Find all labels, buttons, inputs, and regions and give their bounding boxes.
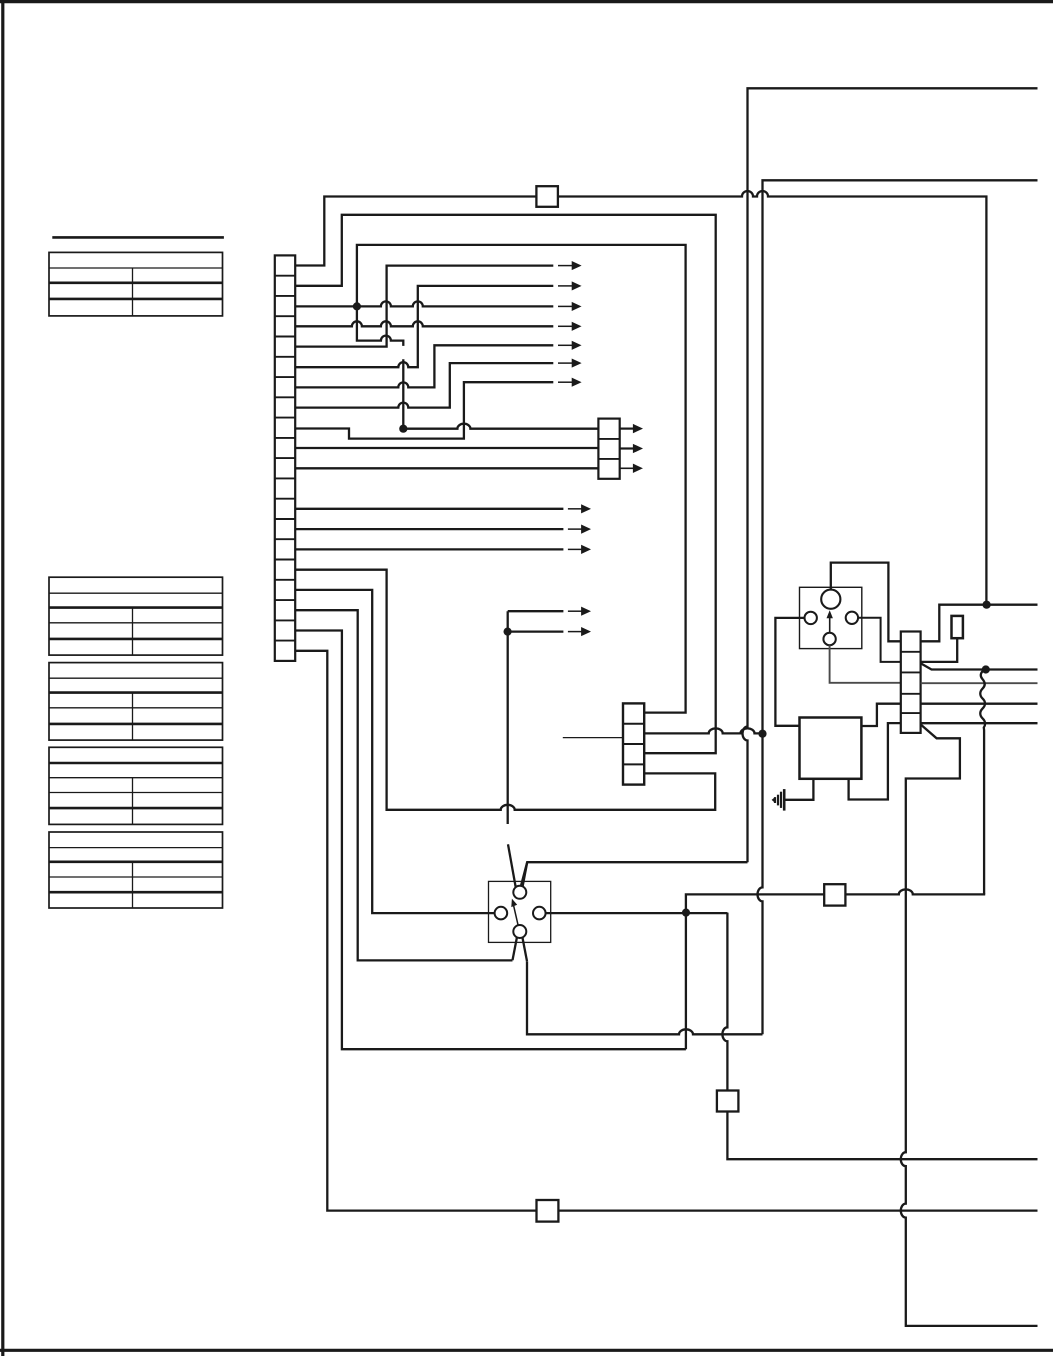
wire: drop x=727.4 from S2 right run down through inline connector X2 to bottom run y=1159.2	[722, 913, 727, 1091]
wire: J4 pin3 to page edge (light wire)	[921, 682, 1038, 684]
wire p20: J1 pin20 down at x=327.3 along bottom, through inline connector X4	[295, 651, 536, 1211]
wire: J4 pin4 left to module U1 right side	[861, 704, 900, 726]
connector J2 (3-pin strip) with output arrows	[598, 419, 619, 479]
wire: S2 right contact to riser x=686 and over to drop x=727.4	[546, 912, 728, 914]
wire p1 continued (hops over verticals at x=747.5, 762.5)	[558, 191, 987, 605]
wire: S1 common (big circle) up and over to connector J4 pin1	[831, 563, 901, 642]
inline connector X4 on wire p20	[537, 1200, 559, 1222]
node D: junction at (762.5,733.7)	[758, 730, 766, 738]
table T5 (empty legend)	[49, 832, 223, 908]
wire: J3 pin2 right (hops at 715.7, 747.5) to junction D	[644, 728, 762, 733]
wire: lever linkage vertical (ends above switch blade)	[507, 611, 509, 824]
wire: feed at y=88 with drop at x=747.5 to key switch upper blade	[743, 88, 1038, 862]
wire: J4 bottom diagonal down to long drop at x=905.8	[901, 725, 1038, 1326]
wire: key switch lever sense lines to arrows	[508, 610, 564, 612]
wire p3: J1 pin3 to arrow (hops at 385.9, 417.8)	[295, 301, 553, 306]
connector J4 (5-pin strip)	[901, 632, 921, 733]
title underline	[52, 236, 224, 239]
wire: feed at y=180 with drop at x=762.5 to junction node D	[763, 180, 1038, 733]
wire p7: J1 pin7 (hop at 403.3) up at x=434.4 to arrow	[295, 345, 553, 387]
wire p10: J1 pin10 to connector J2 pin2	[295, 447, 598, 449]
wire: junction D down to bottom run (vertical hops over y=894.4 wire)	[758, 734, 763, 1035]
wire: J4 pin2 branch diagonal to bus line going to page edge	[921, 663, 1038, 669]
wire p13: J1 pin13 to arrow	[295, 508, 563, 510]
wire p2: J1 pin2 up, across, down to connector J3 pin3	[295, 215, 716, 753]
wire: S1 right contact to connector J4 pin2	[858, 618, 901, 662]
inline connector X1 on wire p1	[536, 186, 558, 207]
wire p3 branch continued: vertical to junction, then to connector J2 pin1 (hop at 463.9)	[402, 359, 404, 428]
wire p8: J1 pin8 (hop at 403.3) up at x=449.8 to arrow	[295, 363, 553, 408]
wire p6: J1 pin6 (hop at 403.3) up at x=417.8 to arrow	[295, 286, 553, 367]
inline connector X2	[717, 1091, 739, 1112]
wire p11: J1 pin11 to connector J2 pin3	[295, 467, 598, 469]
switch S2 blade lower-left	[513, 934, 518, 960]
wire p19: J1 pin19 down at x=341.9 along bottom to vertical riser x=686	[295, 631, 686, 1050]
node F: junction with coiled drop wire	[982, 665, 990, 673]
wire p9: J1 pin9 steps down, up at x=463.9 to arrow	[295, 382, 553, 438]
table T1 (empty legend)	[49, 252, 223, 316]
wire p18: J1 pin18 down at x=357.7 to key switch S2 lower blade	[295, 610, 512, 960]
wire p1: J1 pin1 up and across top, through inline connector X1, down right side	[295, 197, 536, 266]
connector J3 (4-pin strip)	[623, 703, 644, 784]
wire: J4 pin2 to fuse F1	[921, 638, 958, 662]
fuse F1	[952, 616, 963, 638]
wire p3 branch: down, right (hop at 385.9), open stub	[357, 306, 403, 346]
wire: J4 pin5 right to page edge	[921, 722, 1038, 724]
wire: J4 pin5 left, down, to module U1 bottom-right stub	[849, 723, 901, 799]
switch S2 blade lower-right	[522, 935, 527, 962]
module U1 (control unit)	[800, 718, 862, 779]
switch S2 blade upper-left	[508, 844, 516, 890]
node G: junction at (686,912.2)	[682, 909, 690, 917]
node E: junction of wire p1 drop and S1 feed	[983, 601, 991, 609]
wire p4: J1 pin4 to arrow (hops at 356.9, 385.9, 417.8)	[295, 321, 553, 326]
switch S2 blade upper-right	[522, 862, 527, 889]
label leader line at J3	[563, 737, 623, 739]
wire: J4 pin1 right, up, to page edge (node E junction with wire p1)	[921, 605, 1038, 642]
wire: y=894.4 run continues (hop at 905.8) to riser x=985.2	[845, 889, 985, 894]
table T3 (empty legend)	[49, 663, 223, 741]
node C: junction on lever line	[504, 628, 512, 636]
page border frame (decorative)	[0, 0, 1053, 3]
wire: J4 pin4 right to page edge	[921, 703, 1038, 705]
wire p15: J1 pin15 to arrow	[295, 548, 563, 550]
wire: bottom run from X2 to y=1159.2 and right to page edge	[727, 1112, 1037, 1160]
wire: S1 left contact to module U1 left side	[775, 618, 804, 726]
wire: S2 lower blade down and along y=1034.3 (hop at 686) to junction D drop	[527, 961, 763, 1034]
switch S2 (key/kill switch)	[489, 881, 551, 942]
wire: riser x=686 from bottom run up to y=894.4 run	[686, 894, 824, 1049]
wire p16: J1 pin16 down at x=386.6, right (hop at 507.7), up to connector J3 pin4	[295, 570, 715, 810]
node B: junction on branch	[399, 425, 407, 433]
wire p14: J1 pin14 to arrow	[295, 528, 563, 530]
ground G1 (chassis ground)	[772, 789, 785, 811]
wire: S1 lower contact to connector J4 pin3 (light wire)	[830, 645, 901, 683]
table T4 (empty legend)	[49, 747, 223, 824]
wire p5: J1 pin5 up at x=386.6 to arrow	[295, 266, 553, 347]
wire: U1 bottom-left stub to ground	[784, 779, 813, 800]
connector J1 (main 20-pin strip)	[275, 255, 295, 661]
wire: coiled wire from node F down to y=894 run	[980, 670, 985, 895]
wire p17: J1 pin17 down at x=372.2 to key switch S2 left contact	[295, 590, 494, 913]
table T2 (empty legend)	[49, 577, 223, 655]
node A: junction on wire p3	[353, 302, 361, 310]
wire p3 branch: up over the top to connector J3 pin1	[357, 245, 686, 713]
switch S1 (ignition switch)	[800, 587, 862, 648]
inline connector X3 on y=894.4 run	[824, 884, 845, 905]
